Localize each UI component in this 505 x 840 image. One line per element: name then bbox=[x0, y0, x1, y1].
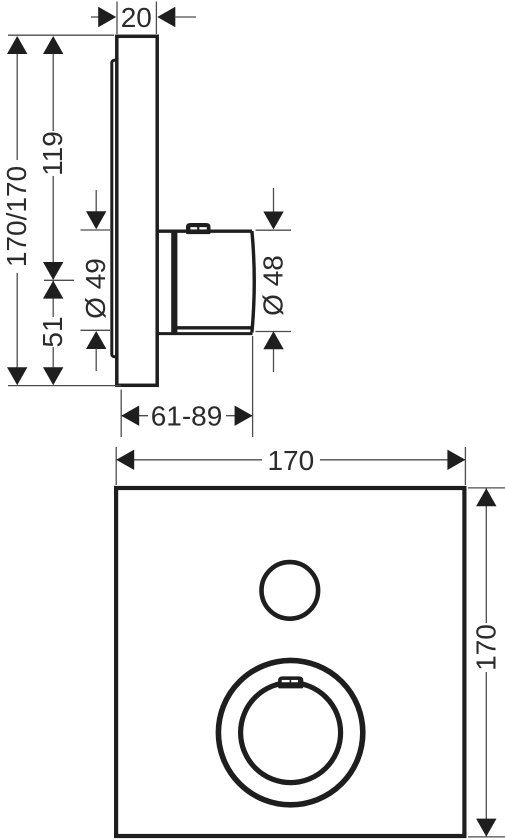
dimension 61-89 bbox=[121, 336, 252, 437]
svg-text:170: 170 bbox=[470, 624, 501, 671]
extension line right for 20 bbox=[155, 2, 157, 35]
svg-text:61-89: 61-89 bbox=[151, 401, 223, 432]
dimension diameter 48 bbox=[256, 188, 292, 372]
dimension 20 bbox=[91, 2, 196, 33]
escutcheon plate (side view) bbox=[117, 36, 157, 385]
sleeve bottom edge (side view) bbox=[157, 332, 253, 335]
knob outer ring (front view) bbox=[218, 660, 362, 804]
svg-text:119: 119 bbox=[37, 131, 68, 176]
sleeve top edge (side view) bbox=[157, 229, 252, 232]
svg-text:Ø 48: Ø 48 bbox=[258, 255, 289, 316]
select button (front view) bbox=[262, 562, 319, 619]
svg-text:51: 51 bbox=[37, 316, 68, 347]
grip tab (front view) bbox=[279, 678, 302, 688]
knob inner ring (front view) bbox=[241, 683, 341, 783]
knob left face (side view) bbox=[171, 230, 177, 334]
dimension 119 bbox=[37, 36, 68, 280]
svg-text:Ø 49: Ø 49 bbox=[80, 258, 111, 319]
top extension line (side view) bbox=[8, 34, 114, 36]
svg-text:20: 20 bbox=[121, 2, 152, 33]
extension lines right of front square bbox=[468, 487, 505, 489]
dimension 170 vertical bbox=[470, 488, 501, 836]
grip tab (side view) bbox=[187, 224, 209, 233]
dimension 170 horizontal bbox=[116, 445, 465, 476]
dimension 51 bbox=[37, 280, 74, 385]
front square plate bbox=[116, 488, 464, 836]
svg-text:170: 170 bbox=[267, 445, 314, 476]
bottom extension line (side view) bbox=[8, 385, 121, 387]
extension lines above front square bbox=[115, 447, 117, 485]
tick at 119/51 split bbox=[44, 279, 74, 281]
dimension diameter 49 bbox=[80, 190, 111, 371]
svg-text:170/170: 170/170 bbox=[1, 166, 32, 267]
wall flange strip (side view) bbox=[112, 60, 119, 356]
dimension 170/170 bbox=[1, 36, 32, 385]
knob bottom edge (side view) bbox=[174, 326, 252, 329]
extension line left for 20 bbox=[116, 2, 118, 35]
knob front face (side view) bbox=[252, 231, 254, 333]
